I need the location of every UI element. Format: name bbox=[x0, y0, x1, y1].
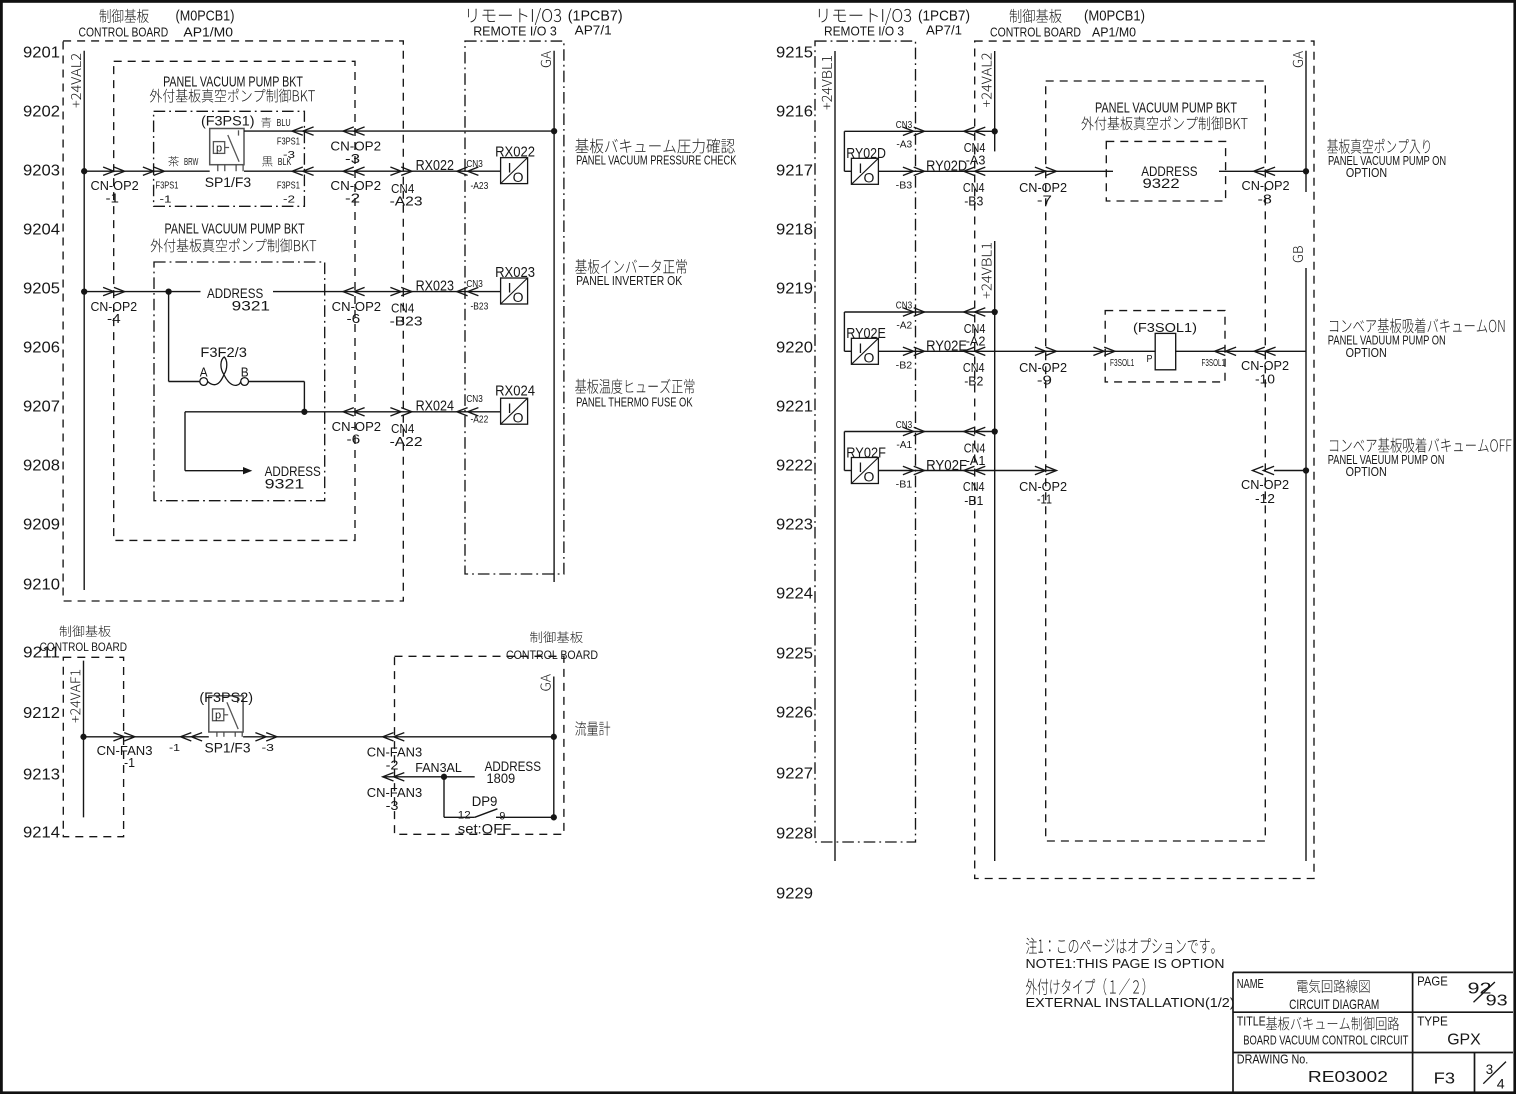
svg-text:AP7/1: AP7/1 bbox=[926, 22, 962, 37]
svg-text:9321: 9321 bbox=[232, 297, 271, 313]
svg-text:p: p bbox=[215, 710, 221, 722]
svg-text:p: p bbox=[216, 142, 222, 154]
svg-text:F3SOL1: F3SOL1 bbox=[1110, 357, 1134, 369]
svg-text:-B3: -B3 bbox=[896, 180, 913, 192]
svg-text:FAN3AL: FAN3AL bbox=[415, 760, 462, 775]
svg-text:(M0PCB1): (M0PCB1) bbox=[1084, 9, 1145, 25]
svg-text:-B23: -B23 bbox=[390, 313, 423, 328]
svg-text:CONTROL BOARD: CONTROL BOARD bbox=[79, 24, 169, 39]
svg-text:9222: 9222 bbox=[776, 457, 813, 474]
svg-text:9202: 9202 bbox=[23, 103, 60, 120]
svg-text:9321: 9321 bbox=[265, 476, 305, 492]
svg-text:-12: -12 bbox=[1255, 492, 1275, 506]
svg-text:9218: 9218 bbox=[776, 221, 813, 238]
svg-text:-8: -8 bbox=[1258, 193, 1272, 207]
svg-text:-11: -11 bbox=[1037, 492, 1052, 507]
svg-text:I: I bbox=[508, 159, 512, 175]
svg-text:-1: -1 bbox=[124, 755, 135, 770]
svg-text:-A1: -A1 bbox=[966, 453, 986, 468]
svg-text:set:OFF: set:OFF bbox=[458, 821, 512, 837]
svg-text:9204: 9204 bbox=[23, 221, 60, 238]
svg-text:PANEL VACUUM PRESSURE CHECK: PANEL VACUUM PRESSURE CHECK bbox=[576, 154, 737, 168]
svg-text:F3PS1: F3PS1 bbox=[277, 180, 300, 192]
svg-text:(F3PS2): (F3PS2) bbox=[199, 689, 253, 705]
svg-text:-B1: -B1 bbox=[964, 493, 983, 508]
svg-text:-B3: -B3 bbox=[964, 194, 983, 209]
svg-text:9209: 9209 bbox=[23, 516, 60, 533]
svg-text:I: I bbox=[858, 160, 862, 176]
svg-text:PANEL VACUUM PUMP BKT: PANEL VACUUM PUMP BKT bbox=[165, 221, 305, 237]
svg-text:AP7/1: AP7/1 bbox=[575, 22, 612, 37]
svg-text:4: 4 bbox=[1497, 1076, 1505, 1092]
svg-text:-1: -1 bbox=[169, 742, 180, 754]
svg-text:-6: -6 bbox=[347, 312, 361, 326]
svg-text:PANEL VACUUM PUMP BKT: PANEL VACUUM PUMP BKT bbox=[1095, 101, 1237, 117]
svg-text:-1: -1 bbox=[106, 192, 120, 206]
svg-text:-9: -9 bbox=[1037, 372, 1052, 387]
svg-text:CN-OP2: CN-OP2 bbox=[1241, 478, 1289, 492]
svg-text:NOTE1:THIS PAGE IS OPTION: NOTE1:THIS PAGE IS OPTION bbox=[1026, 956, 1225, 971]
svg-text:-B1: -B1 bbox=[896, 479, 913, 491]
svg-text:B: B bbox=[241, 365, 249, 380]
svg-text:O: O bbox=[513, 289, 524, 305]
svg-text:9207: 9207 bbox=[23, 398, 60, 415]
svg-text:(F3PS1): (F3PS1) bbox=[201, 113, 255, 129]
svg-text:-3: -3 bbox=[262, 742, 275, 754]
svg-text:-7: -7 bbox=[1037, 192, 1052, 207]
svg-text:9216: 9216 bbox=[776, 103, 813, 120]
svg-text:TITLE: TITLE bbox=[1237, 1015, 1266, 1029]
svg-text:PANEL INVERTER OK: PANEL INVERTER OK bbox=[576, 274, 683, 288]
svg-text:O: O bbox=[863, 170, 874, 186]
svg-text:CONTROL BOARD: CONTROL BOARD bbox=[506, 648, 598, 662]
svg-text:-A22: -A22 bbox=[471, 414, 489, 426]
svg-text:-B2: -B2 bbox=[896, 360, 913, 372]
svg-text:9210: 9210 bbox=[23, 576, 60, 593]
svg-text:93: 93 bbox=[1486, 992, 1508, 1009]
svg-text:9224: 9224 bbox=[776, 585, 813, 602]
svg-text:-6: -6 bbox=[347, 432, 361, 446]
svg-text:OPTION: OPTION bbox=[1346, 346, 1387, 360]
svg-text:CONTROL BOARD: CONTROL BOARD bbox=[990, 24, 1081, 39]
svg-text:AP1/M0: AP1/M0 bbox=[1092, 24, 1136, 39]
svg-text:RY02F: RY02F bbox=[926, 458, 967, 474]
svg-text:AP1/M0: AP1/M0 bbox=[183, 24, 233, 39]
svg-text:O: O bbox=[513, 169, 524, 185]
svg-text:9220: 9220 bbox=[776, 339, 813, 356]
svg-text:F3F2/3: F3F2/3 bbox=[200, 344, 247, 360]
svg-text:I: I bbox=[508, 400, 512, 416]
svg-text:9229: 9229 bbox=[776, 885, 813, 902]
svg-text:-A22: -A22 bbox=[390, 434, 423, 449]
svg-text:A: A bbox=[200, 365, 208, 380]
svg-text:RY02E: RY02E bbox=[926, 339, 967, 355]
svg-text:F3PS1: F3PS1 bbox=[277, 136, 300, 148]
svg-text:RY02D: RY02D bbox=[926, 159, 967, 175]
svg-text:O: O bbox=[863, 350, 874, 366]
svg-text:-A3: -A3 bbox=[966, 153, 986, 168]
svg-text:CONTROL BOARD: CONTROL BOARD bbox=[40, 640, 128, 654]
svg-text:DP9: DP9 bbox=[472, 793, 498, 809]
svg-text:SP1/F3: SP1/F3 bbox=[205, 174, 252, 190]
svg-text:I: I bbox=[858, 459, 862, 475]
svg-text:O: O bbox=[513, 409, 524, 425]
svg-text:1809: 1809 bbox=[487, 770, 516, 786]
svg-text:-A2: -A2 bbox=[966, 333, 986, 348]
svg-text:RY02D: RY02D bbox=[846, 146, 886, 162]
svg-text:-3: -3 bbox=[283, 149, 295, 161]
svg-text:9206: 9206 bbox=[23, 339, 60, 356]
svg-text:RY02E: RY02E bbox=[846, 326, 886, 342]
svg-text:DRAWING No.: DRAWING No. bbox=[1237, 1052, 1309, 1066]
svg-text:CN3: CN3 bbox=[466, 393, 483, 405]
svg-text:PANEL THERMO FUSE OK: PANEL THERMO FUSE OK bbox=[576, 395, 693, 409]
svg-text:OPTION: OPTION bbox=[1346, 465, 1387, 479]
svg-text:CN-OP2: CN-OP2 bbox=[1241, 359, 1289, 373]
svg-text:-2: -2 bbox=[386, 757, 399, 772]
svg-text:-2: -2 bbox=[283, 193, 295, 205]
svg-text:EXTERNAL INSTALLATION(1/2): EXTERNAL INSTALLATION(1/2) bbox=[1026, 995, 1235, 1010]
svg-text:RE03002: RE03002 bbox=[1308, 1069, 1388, 1086]
svg-text:9219: 9219 bbox=[776, 280, 813, 297]
svg-text:REMOTE I/O 3: REMOTE I/O 3 bbox=[473, 24, 557, 39]
svg-text:9226: 9226 bbox=[776, 704, 813, 721]
svg-text:9217: 9217 bbox=[776, 162, 813, 179]
svg-text:TYPE: TYPE bbox=[1417, 1015, 1448, 1029]
svg-text:I: I bbox=[858, 340, 862, 356]
svg-text:-A23: -A23 bbox=[471, 180, 489, 192]
svg-text:-3: -3 bbox=[345, 152, 360, 166]
svg-text:NAME: NAME bbox=[1237, 977, 1264, 991]
svg-text:SP1/F3: SP1/F3 bbox=[205, 739, 251, 755]
svg-text:CIRCUIT DIAGRAM: CIRCUIT DIAGRAM bbox=[1289, 996, 1379, 1012]
svg-text:RX022: RX022 bbox=[416, 158, 454, 174]
svg-text:BRW: BRW bbox=[184, 157, 199, 168]
svg-text:-A3: -A3 bbox=[896, 139, 912, 151]
svg-text:PAGE: PAGE bbox=[1417, 975, 1448, 989]
svg-text:-2: -2 bbox=[345, 192, 360, 206]
svg-text:F3: F3 bbox=[1434, 1071, 1456, 1088]
svg-text:9221: 9221 bbox=[776, 398, 813, 415]
svg-text:9203: 9203 bbox=[23, 162, 60, 179]
svg-text:9213: 9213 bbox=[23, 766, 60, 783]
svg-text:BOARD VACUUM CONTROL CIRCUIT: BOARD VACUUM CONTROL CIRCUIT bbox=[1243, 1033, 1408, 1048]
svg-text:REMOTE I/O 3: REMOTE I/O 3 bbox=[824, 24, 904, 39]
svg-text:-A23: -A23 bbox=[390, 194, 423, 209]
svg-text:9205: 9205 bbox=[23, 280, 60, 297]
svg-text:-10: -10 bbox=[1255, 373, 1275, 387]
svg-text:CN3: CN3 bbox=[896, 119, 913, 131]
svg-text:9322: 9322 bbox=[1143, 175, 1180, 191]
svg-text:9225: 9225 bbox=[776, 645, 813, 662]
svg-text:BLU: BLU bbox=[277, 118, 291, 129]
svg-text:CN3: CN3 bbox=[896, 300, 913, 312]
svg-text:RX024: RX024 bbox=[416, 398, 454, 414]
svg-text:RX023: RX023 bbox=[416, 278, 454, 294]
svg-text:(M0PCB1): (M0PCB1) bbox=[176, 9, 235, 25]
svg-text:9201: 9201 bbox=[23, 44, 60, 61]
svg-text:PANEL VACUUM PUMP BKT: PANEL VACUUM PUMP BKT bbox=[163, 74, 303, 90]
svg-text:9208: 9208 bbox=[23, 457, 60, 474]
svg-text:CN3: CN3 bbox=[466, 278, 483, 290]
svg-text:-A1: -A1 bbox=[896, 439, 912, 451]
svg-text:F3SOL1: F3SOL1 bbox=[1202, 357, 1226, 369]
svg-text:CN3: CN3 bbox=[466, 158, 483, 170]
svg-text:F3PS1: F3PS1 bbox=[156, 180, 179, 192]
svg-text:9228: 9228 bbox=[776, 825, 813, 842]
svg-text:-B23: -B23 bbox=[471, 301, 489, 313]
svg-text:-3: -3 bbox=[386, 798, 399, 813]
svg-text:CN3: CN3 bbox=[896, 419, 913, 431]
svg-text:-1: -1 bbox=[160, 193, 172, 205]
svg-text:9214: 9214 bbox=[23, 824, 60, 841]
svg-text:-A2: -A2 bbox=[896, 319, 912, 331]
svg-text:OPTION: OPTION bbox=[1346, 166, 1387, 180]
svg-text:-B2: -B2 bbox=[964, 374, 983, 389]
svg-text:-4: -4 bbox=[107, 312, 121, 326]
svg-text:O: O bbox=[863, 469, 874, 485]
svg-text:9223: 9223 bbox=[776, 516, 813, 533]
svg-text:GPX: GPX bbox=[1447, 1032, 1481, 1049]
svg-text:P: P bbox=[1147, 353, 1153, 365]
svg-text:RY02F: RY02F bbox=[846, 445, 886, 461]
svg-text:CN-OP2: CN-OP2 bbox=[1242, 179, 1290, 193]
svg-text:I: I bbox=[508, 280, 512, 296]
svg-text:9215: 9215 bbox=[776, 44, 813, 61]
svg-text:9212: 9212 bbox=[23, 705, 60, 722]
svg-text:9227: 9227 bbox=[776, 765, 813, 782]
svg-text:RX024: RX024 bbox=[495, 383, 535, 399]
